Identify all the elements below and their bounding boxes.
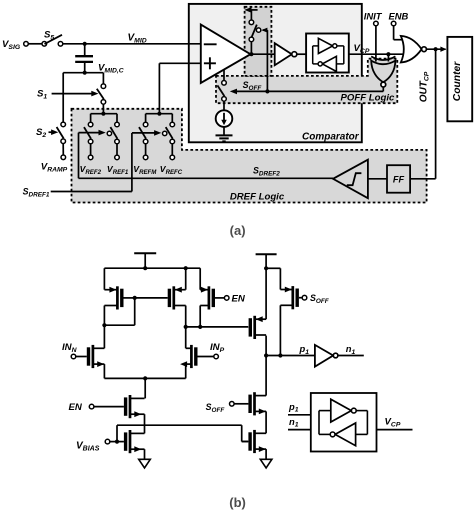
svg-text:INP: INP	[210, 342, 225, 354]
svg-text:VCP: VCP	[385, 417, 401, 429]
svg-text:SOFF: SOFF	[206, 402, 226, 414]
svg-text:S1: S1	[37, 89, 47, 101]
svg-text:INN: INN	[62, 342, 78, 354]
svg-text:FF: FF	[393, 174, 405, 184]
svg-text:VSIG: VSIG	[2, 39, 21, 51]
svg-text:(b): (b)	[229, 495, 246, 510]
svg-text:S2: S2	[36, 127, 46, 139]
svg-text:(a): (a)	[230, 223, 246, 238]
svg-text:p1: p1	[288, 401, 299, 414]
svg-text:INIT: INIT	[364, 10, 383, 21]
svg-text:Comparator: Comparator	[302, 132, 360, 143]
svg-text:Counter: Counter	[452, 61, 463, 101]
svg-text:n1: n1	[289, 416, 299, 429]
svg-text:EN: EN	[69, 402, 83, 413]
svg-text:VBIAS: VBIAS	[76, 441, 100, 453]
svg-text:n1: n1	[346, 343, 356, 356]
svg-text:SOFF: SOFF	[310, 293, 330, 305]
svg-text:VRAMP: VRAMP	[41, 162, 68, 174]
svg-text:OUTCP: OUTCP	[419, 71, 431, 102]
svg-text:EN: EN	[232, 294, 246, 305]
svg-text:DREF Logic: DREF Logic	[230, 192, 285, 203]
svg-text:VMID: VMID	[128, 33, 147, 45]
svg-text:p1: p1	[299, 343, 310, 356]
svg-text:S5: S5	[44, 30, 54, 42]
svg-text:POFF Logic: POFF Logic	[341, 93, 395, 104]
svg-text:SDREF1: SDREF1	[23, 187, 50, 199]
svg-text:ENB: ENB	[389, 10, 409, 21]
